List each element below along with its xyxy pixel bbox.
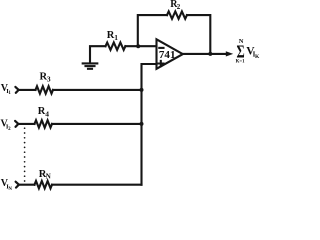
svg-text:K=1: K=1 [236,58,245,64]
svg-text:3: 3 [47,75,51,84]
svg-text:741: 741 [159,49,176,61]
svg-text:N: N [8,187,12,192]
svg-text:N: N [46,173,51,181]
svg-text:4: 4 [45,109,49,118]
svg-text:1: 1 [114,33,118,42]
svg-text:N: N [239,38,244,45]
svg-text:K: K [255,54,260,60]
svg-text:2: 2 [177,3,181,11]
